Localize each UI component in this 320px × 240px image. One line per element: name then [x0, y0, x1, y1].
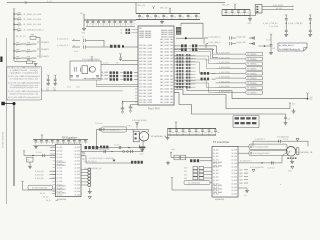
svg-text:00_000: 00_000 [57, 150, 63, 152]
svg-text:0x_0V0b_0b0_0: 0x_0V0b_0b0_0 [279, 45, 294, 47]
svg-text:0u0: 0u0 [95, 24, 98, 26]
svg-text:00_000 00: 00_000 00 [160, 99, 173, 101]
svg-text:00_000: 00_000 [213, 153, 219, 155]
svg-text:00_000: 00_000 [74, 167, 80, 169]
svg-text:00: 00 [73, 45, 75, 47]
svg-text:0_00_0000: 0_00_0000 [269, 26, 278, 28]
svg-text:000: 000 [240, 170, 243, 172]
svg-text:0 00 0(p)00 00000: 0 00 0(p)00 00000 [95, 149, 110, 151]
svg-text:000 000: 000 000 [213, 166, 222, 168]
svg-text:00_000: 00_000 [213, 173, 219, 175]
svg-text:PL709860: PL709860 [247, 59, 257, 61]
svg-text:0u0: 0u0 [149, 17, 152, 19]
svg-text:00_000: 00_000 [74, 154, 80, 156]
svg-text:00_000: 00_000 [213, 170, 219, 172]
svg-text:00_000: 00_000 [74, 184, 80, 186]
svg-text:00_000 00: 00_000 00 [160, 68, 173, 70]
svg-text:00_000: 00_000 [74, 194, 80, 196]
svg-text:0x 000A0T0w0(ng 0): 0x 000A0T0w0(ng 0) [279, 48, 300, 51]
svg-text:0 00 0(p)0 000(0): 0 00 0(p)0 000(0) [132, 120, 147, 122]
svg-text:0 00 0(p)0 000: 0 00 0(p)0 000 [277, 137, 289, 139]
svg-text:0_0u0_00: 0_0u0_00 [35, 178, 43, 180]
svg-text:00 00_000: 00 00_000 [139, 96, 152, 98]
svg-text:0_0uF_+2V8_S0: 0_0uF_+2V8_S0 [288, 23, 302, 25]
svg-text:00 00_000: 00 00_000 [139, 83, 152, 85]
svg-text:PL709860: PL709860 [247, 93, 257, 95]
svg-text:VDL_0V: VDL_0V [137, 5, 146, 7]
svg-text:0u: 0u [81, 142, 83, 144]
svg-text:00_000 00: 00_000 00 [160, 61, 173, 63]
svg-text:000 000: 000 000 [57, 165, 66, 167]
svg-text:00_000: 00_000 [57, 167, 63, 169]
svg-text:0L_0V00_0L0_000: 0L_0V00_0L0_000 [24, 19, 42, 21]
svg-text:00_000: 00_000 [213, 156, 219, 158]
svg-text:PL709860: PL709860 [247, 54, 257, 56]
svg-text:0.70 0: 0.70 0 [283, 139, 288, 141]
svg-text:0u0: 0u0 [178, 132, 181, 134]
svg-text:xx: xx [27, 52, 29, 54]
svg-text:0u0: 0u0 [105, 24, 108, 26]
svg-text:0(p)0(b)0ot 0/T0(a)0o(n) 0(a)0: 0(p)0(b)0ot 0/T0(a)0o(n) 0(a)0(d)0o - 0(… [10, 92, 39, 95]
svg-text:0u0: 0u0 [198, 132, 201, 134]
svg-text:00_000 00: 00_000 00 [160, 96, 173, 98]
svg-text:00_000 00: 00_000 00 [160, 82, 173, 84]
svg-text:00_0L: 00_0L [46, 200, 51, 202]
svg-text:0V0: 0V0 [80, 13, 83, 15]
svg-text:0u 00: 0u 00 [74, 51, 78, 53]
svg-text:00_000: 00_000 [57, 174, 63, 176]
svg-text:00_000: 00_000 [74, 178, 80, 180]
svg-text:00: 00 [135, 101, 137, 103]
svg-text:0u0: 0u0 [234, 12, 237, 14]
svg-text:00_000 00: 00_000 00 [160, 64, 173, 66]
svg-text:00_000: 00_000 [74, 191, 80, 193]
svg-text:00_000: 00_000 [276, 8, 282, 10]
svg-text:00 00_000: 00 00_000 [139, 74, 152, 76]
svg-text:00 00_000: 00 00_000 [139, 61, 152, 63]
svg-text:0u00: 0u00 [140, 154, 144, 156]
svg-text:000 000: 000 000 [57, 192, 66, 194]
svg-text:00_000: 00_000 [74, 150, 80, 152]
svg-text:000: 000 [184, 171, 187, 173]
svg-text:00: 00 [135, 98, 137, 100]
svg-text:0L_0V00(L)0_0L00_0: 0L_0V00(L)0_0L00_0 [24, 30, 45, 32]
svg-text:0u 00: 0u 00 [67, 87, 71, 89]
svg-text:0u0: 0u0 [191, 132, 194, 134]
svg-text:0L_0V00_0L0_000: 0L_0V00_0L0_000 [24, 24, 42, 26]
svg-text:0_0uF_+2V8_S0: 0_0uF_+2V8_S0 [263, 23, 277, 25]
svg-text:00_000 00: 00_000 00 [160, 45, 173, 47]
svg-text:00(00000): 00(00000) [215, 199, 224, 201]
svg-text:000 000: 000 000 [213, 185, 222, 187]
svg-text:0 00 0(p)00 000: 0 00 0(p)00 000 [106, 129, 121, 131]
svg-text:00_000 00: 00_000 00 [160, 102, 173, 104]
svg-text:MC0/ATN(A)0_PA: MC0/ATN(A)0_PA [151, 135, 167, 138]
svg-text:0u0: 0u0 [174, 17, 177, 19]
svg-text:a: a [280, 184, 281, 186]
svg-text:0u0: 0u0 [182, 17, 185, 19]
svg-text:00 00_000: 00 00_000 [139, 80, 152, 82]
svg-text:00_(0/0) - 0(AB) 0/T0(a)0(m)0(: 00_(0/0) - 0(AB) 0/T0(a)0(m)0(p)0(m) 0/ [11, 96, 41, 99]
svg-text:xx: xx [27, 45, 29, 47]
svg-text:00: 00 [135, 95, 137, 97]
svg-text:00_000: 00_000 [57, 157, 63, 159]
svg-text:0_0u0_00: 0_0u0_00 [35, 171, 43, 173]
svg-text:00 000: 00 000 [205, 59, 210, 61]
svg-text:000: 000 [240, 176, 243, 178]
svg-text:00(00000): 00(00000) [57, 199, 66, 201]
svg-text:0u0: 0u0 [116, 24, 119, 26]
svg-text:Part 1 PHY: Part 1 PHY [148, 108, 160, 111]
svg-text:0u00 000: 0u00 000 [268, 168, 275, 170]
svg-text:00_000: 00_000 [231, 160, 237, 162]
svg-text:00_000: 00_000 [231, 183, 237, 185]
svg-text:00: 00 [27, 160, 29, 162]
svg-text:PL709860: PL709860 [247, 78, 257, 80]
svg-text:00_000 00: 00_000 00 [160, 79, 173, 81]
svg-text:00_000 00: 00_000 00 [160, 76, 173, 78]
svg-text:00 00_000: 00 00_000 [139, 90, 152, 92]
svg-text:00 00_000: 00 00_000 [139, 45, 152, 47]
svg-text:00_000: 00_000 [231, 156, 237, 158]
svg-text:00_000: 00_000 [74, 147, 80, 149]
svg-text:0u0: 0u0 [185, 132, 188, 134]
svg-text:00_000: 00_000 [231, 180, 237, 182]
svg-text:PL709860: PL709860 [247, 83, 257, 85]
svg-text:000: 000 [184, 174, 187, 176]
svg-text:00_000: 00_000 [213, 180, 219, 182]
svg-text:0u0: 0u0 [198, 17, 201, 19]
svg-text:00_0L: 00_0L [43, 197, 48, 199]
svg-text:00_000 00: 00_000 00 [160, 55, 173, 57]
svg-text:0u0: 0u0 [273, 48, 276, 50]
svg-text:00 00_000: 00 00_000 [139, 67, 152, 69]
svg-text:000 000: 000 000 [57, 162, 66, 164]
svg-text:0u0: 0u0 [100, 24, 103, 26]
svg-text:xx: xx [18, 25, 20, 27]
svg-text:00 00_000: 00 00_000 [139, 58, 152, 60]
svg-text:PL709860: PL709860 [247, 88, 257, 90]
svg-text:00 00_000: 00 00_000 [139, 51, 152, 53]
svg-text:00 00_000: 00 00_000 [139, 71, 152, 73]
svg-text:xx: xx [16, 45, 18, 47]
svg-text:00_000: 00_000 [231, 170, 237, 172]
svg-text:000: 000 [240, 183, 243, 185]
svg-text:00_000: 00_000 [213, 149, 219, 151]
svg-text:0= T(m)0(p)0(a)m 0/T 00o(k) -: 0= T(m)0(p)0(a)m 0/T 00o(k) - 0u0 [10, 79, 38, 81]
svg-text:0L_0V00_0L0_000: 0L_0V00_0L0_000 [24, 14, 42, 16]
svg-text:PL_PL_PL: PL_PL_PL [16, 36, 27, 38]
svg-text:00_000: 00_000 [231, 194, 237, 196]
svg-text:C0 0u0: C0 0u0 [36, 152, 42, 154]
svg-text:C0: C0 [82, 37, 84, 39]
svg-text:00: 00 [135, 92, 137, 94]
svg-text:0 0000 000 00000: 0 0000 000 00000 [3, 131, 5, 148]
svg-text:000: 000 [184, 168, 187, 170]
svg-text:0u: 0u [87, 142, 89, 144]
svg-text:00_000 00: 00_000 00 [160, 42, 173, 44]
svg-text:0_0uF0_000_00: 0_0uF0_000_00 [84, 161, 97, 163]
svg-text:0u0: 0u0 [111, 24, 114, 26]
svg-text:000 000: 000 000 [57, 189, 66, 191]
svg-text:0u0: 0u0 [204, 132, 207, 134]
svg-text:000 000: 000 000 [213, 192, 222, 194]
svg-text:00_000: 00_000 [57, 181, 63, 183]
svg-text:PL_PL(A)PL: PL_PL(A)PL [37, 41, 50, 44]
svg-text:00_000: 00_000 [74, 188, 80, 190]
svg-text:00_000: 00_000 [231, 149, 237, 151]
svg-text:C0: C0 [101, 147, 103, 149]
svg-text:00_000 00: 00_000 00 [160, 52, 173, 54]
svg-text:00_000: 00_000 [231, 187, 237, 189]
svg-text:00: 00 [73, 39, 75, 41]
svg-text:C0 0.0uF: C0 0.0uF [95, 123, 103, 125]
svg-text:000: 000 [82, 155, 85, 157]
svg-text:0_0u0_00_0: 0_0u0_00_0 [57, 45, 69, 47]
svg-text:0_00(_)000_0: 0_00(_)000_0 [209, 37, 221, 39]
svg-text:0 00 00(p)0 0000: 0 00 00(p)0 0000 [253, 147, 269, 149]
svg-text:00 00_000: 00 00_000 [139, 55, 152, 57]
svg-text:000: 000 [189, 49, 192, 51]
svg-text:xx: xx [16, 59, 18, 61]
svg-text:000: 000 [184, 178, 187, 180]
svg-text:0u0: 0u0 [190, 17, 193, 19]
svg-text:0 00_000T0: 0 00_000T0 [273, 5, 283, 7]
svg-text:0u0: 0u0 [133, 24, 136, 26]
svg-text:0u0: 0u0 [217, 132, 220, 134]
svg-text:00_000: 00_000 [231, 173, 237, 175]
svg-text:U0: U0 [139, 28, 141, 30]
svg-text:0(m)0(a)0(p)0(g) 00 0(m)(p)0 -: 0(m)0(a)0(p)0(g) 00 0(m)(p)0 - 0u0 [10, 87, 39, 89]
svg-text:00_000: 00_000 [57, 147, 63, 149]
svg-text:PL_PL(A)PL: PL_PL(A)PL [37, 48, 50, 51]
svg-text:00_000: 00_000 [74, 171, 80, 173]
svg-text:00 00_000: 00 00_000 [139, 64, 152, 66]
svg-text:VDL_0V: VDL_0V [160, 8, 168, 10]
svg-text:000 000: 000 000 [213, 162, 222, 164]
svg-text:0u: 0u [48, 142, 50, 144]
svg-text:C0: C0 [82, 43, 84, 45]
svg-text:0u0: 0u0 [211, 132, 214, 134]
svg-text:00_000: 00_000 [74, 164, 80, 166]
svg-text:00_000: 00_000 [57, 171, 63, 173]
svg-text:0u0: 0u0 [127, 24, 130, 26]
svg-text:00_00(00:00): 00_00(00:00) [188, 183, 200, 185]
svg-text:00: 00 [121, 32, 123, 34]
svg-text:00_000: 00_000 [231, 166, 237, 168]
svg-text:00_000: 00_000 [57, 178, 63, 180]
svg-text:PL709860: PL709860 [247, 64, 257, 66]
svg-text:00 00_000: 00 00_000 [139, 93, 152, 95]
svg-text:+ 00 0(1)00 00(0) 0 + 0(1)00 0: + 00 0(1)00 00(0) 0 + 0(1)00 000 [88, 158, 114, 160]
svg-text:00 000 00(00:00): 00 000 00(00:00) [32, 187, 48, 189]
svg-text:0u0/0_000: 0u0/0_000 [237, 42, 246, 44]
svg-text:0u 00: 0u 00 [76, 87, 80, 89]
svg-text:000: 000 [82, 152, 85, 154]
svg-text:0u0: 0u0 [246, 12, 249, 14]
svg-text:00_000: 00_000 [74, 161, 80, 163]
svg-text:xx: xx [16, 52, 18, 54]
svg-text:PL709860: PL709860 [247, 69, 257, 71]
svg-text:0_00(_)000_0: 0_00(_)000_0 [209, 42, 221, 44]
svg-text:00 00_000: 00 00_000 [139, 87, 152, 89]
svg-text:0u00: 0u00 [171, 149, 175, 151]
svg-text:000: 000 [189, 46, 192, 48]
svg-text:TX Line Driver: TX Line Driver [213, 140, 229, 144]
svg-text:0u: 0u [37, 142, 39, 144]
svg-text:00_000: 00_000 [74, 174, 80, 176]
svg-text:00_000: 00_000 [231, 190, 237, 192]
svg-text:0u: 0u [43, 142, 45, 144]
svg-text:0_0u0_00_0: 0_0u0_00_0 [57, 39, 69, 41]
svg-text:00_000: 00_000 [74, 157, 80, 159]
svg-text:00 00_000: 00 00_000 [139, 77, 152, 79]
svg-text:0u00: 0u00 [288, 170, 292, 172]
svg-text:0u0: 0u0 [122, 24, 125, 26]
svg-text:0.00r 0: 0.00r 0 [126, 125, 132, 127]
svg-text:0 00 00(p)00 0000: 0 00 00(p)00 0000 [253, 153, 270, 155]
svg-text:xx: xx [18, 20, 20, 22]
svg-text:C0 0u0: C0 0u0 [114, 144, 120, 146]
svg-text:00_000 00: 00_000 00 [160, 39, 173, 41]
svg-text:00_000 00: 00_000 00 [160, 71, 173, 73]
svg-text:RX Equalizer: RX Equalizer [62, 136, 77, 140]
svg-text:00_000: 00_000 [57, 154, 63, 156]
svg-text:0u0: 0u0 [240, 12, 243, 14]
svg-text:0 00_0(p)00_000(0)0: 0 00_0(p)00_000(0)0 [82, 59, 100, 61]
svg-text:00_0L: 00_0L [40, 193, 45, 195]
svg-text:0u0: 0u0 [172, 132, 175, 134]
svg-text:00_000 00T 0: 00_000 00T 0 [240, 160, 251, 162]
svg-text:00 00_000: 00 00_000 [139, 48, 152, 50]
svg-text:00_000: 00_000 [231, 153, 237, 155]
svg-text:00_000: 00_000 [57, 194, 63, 196]
svg-text:0(p)0(A)0m = 0(a)0(b)0(c)0: 0(p)0(A)0m = 0(a)0(b)0(c)0o [10, 71, 38, 74]
svg-text:00_000 00: 00_000 00 [160, 88, 173, 90]
svg-text:PL709860: PL709860 [247, 73, 257, 75]
svg-text:MC0/ATN(A)0_PA: MC0/ATN(A)0_PA [298, 151, 314, 154]
svg-text:0u0: 0u0 [244, 195, 247, 197]
svg-text:000 000: 000 000 [57, 186, 66, 188]
svg-text:00 00_000: 00 00_000 [139, 102, 152, 104]
svg-text:0u0: 0u0 [288, 119, 291, 121]
svg-text:00_000: 00_000 [103, 63, 108, 65]
svg-text:00_000 00: 00_000 00 [160, 48, 173, 50]
svg-text:000: 000 [240, 173, 243, 175]
svg-text:000 000: 000 000 [213, 189, 222, 191]
svg-text:000 0000: 000 0000 [139, 37, 151, 39]
svg-text:VDL_0V: VDL_0V [222, 5, 230, 7]
svg-text:00_000 00: 00_000 00 [160, 92, 173, 94]
svg-text:000: 000 [240, 180, 243, 182]
svg-text:0u0: 0u0 [166, 17, 169, 19]
svg-text:00_000: 00_000 [74, 181, 80, 183]
svg-text:0 00: 0 00 [121, 103, 124, 105]
svg-text:00_000 00: 00_000 00 [160, 58, 173, 60]
svg-text:00_000: 00_000 [231, 163, 237, 165]
svg-text:0u0/0_000: 0u0/0_000 [237, 37, 246, 39]
svg-text:000: 000 [310, 99, 313, 101]
svg-text:0u0: 0u0 [89, 24, 92, 26]
svg-text:00_000: 00_000 [231, 177, 237, 179]
svg-text:0u0: 0u0 [157, 17, 160, 19]
svg-text:00_000 00: 00_000 00 [160, 85, 173, 87]
svg-text:0_0u0_00: 0_0u0_00 [35, 174, 43, 176]
svg-text:00_000: 00_000 [213, 177, 219, 179]
svg-text:0u0: 0u0 [141, 17, 144, 19]
svg-text:0 000 00T 0: 0 000 00T 0 [255, 139, 265, 141]
svg-text:xx: xx [18, 31, 20, 33]
svg-text:0u0: 0u0 [292, 104, 295, 106]
svg-text:0u0: 0u0 [228, 12, 231, 14]
svg-text:00: 00 [135, 89, 137, 91]
svg-text:PL_PL(A)PL: PL_PL(A)PL [37, 55, 50, 58]
svg-text:0 00_0(p)00 000: 0 00_0(p)00 000 [250, 167, 264, 169]
svg-text:00: 00 [121, 29, 123, 31]
